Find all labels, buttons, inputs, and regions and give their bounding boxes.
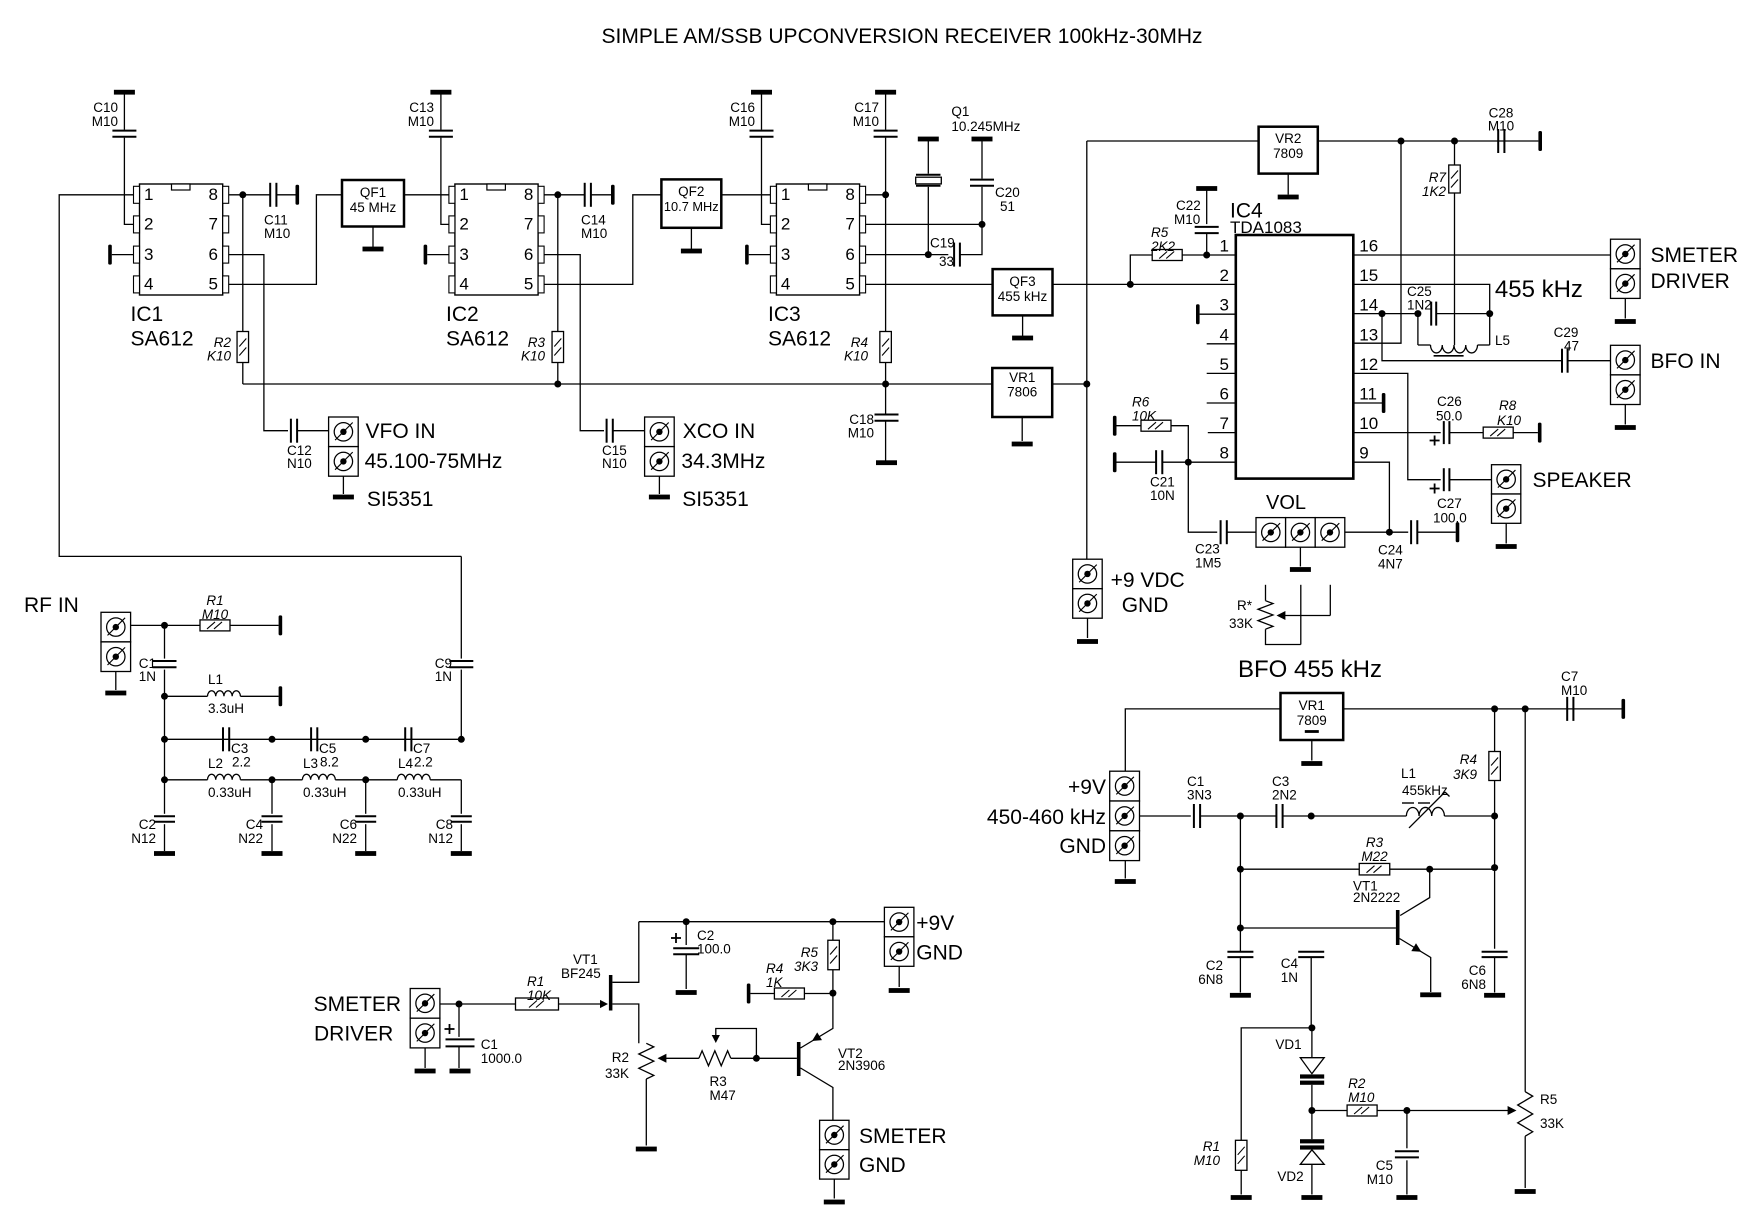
node IC2 pin8 junction [554,191,561,198]
svg-text:3.3uH: 3.3uH [208,701,244,716]
op-amp IC4 TDA1083 box [1236,235,1354,479]
crystal filter QF2 10.7 MHz box [661,179,721,227]
capacitor C28 [1497,129,1499,153]
svg-text:3: 3 [459,245,468,264]
svg-text:2.2: 2.2 [414,755,433,770]
wire R1 to terminator [230,624,279,626]
node ladder A top [161,736,168,743]
inductor L5 [1418,344,1431,346]
svg-text:12: 12 [1359,355,1378,374]
svg-text:VOL: VOL [1266,492,1306,514]
resistor R4 3K9 [1494,709,1496,752]
svg-text:11: 11 [1359,385,1377,404]
svg-text:1: 1 [781,185,790,204]
wire R3 right [1390,868,1495,870]
svg-text:N12: N12 [131,831,156,846]
node C1 out junction [1237,813,1244,820]
inductor L1 455kHz variable [1406,807,1444,816]
crystal Q1 10.245MHz [918,137,939,142]
svg-text:M22: M22 [1361,849,1388,864]
svg-text:R8: R8 [1499,398,1517,413]
VT2 collector [801,1068,833,1120]
potentiometer R3 M47 [699,1051,731,1066]
node R5 bottom junction [1127,281,1134,288]
svg-text:8: 8 [845,185,854,204]
R* wiper vertical [1329,585,1331,616]
svg-text:2N2222: 2N2222 [1353,890,1400,905]
svg-text:K10: K10 [844,349,869,364]
svg-text:VR1: VR1 [1299,698,1325,713]
wire C21 node to C23 [1188,462,1217,532]
svg-text:C6: C6 [1469,963,1486,978]
node ladder B bot [269,776,276,783]
inductor L1 3.3uH [208,691,241,697]
node L1 out junction [1491,813,1498,820]
svg-text:C6: C6 [340,817,357,832]
wire C1 node down [1239,816,1241,952]
transistor VT2 2N3906 bar [797,1042,801,1076]
node VT1 base junction [1237,925,1244,932]
connector VFO IN [329,417,359,447]
node ladder D top [458,736,465,743]
capacitor C4 BFO 1N [1298,951,1324,953]
svg-text:7809: 7809 [1297,713,1327,728]
ground VT1 emitter [1420,992,1441,997]
wire IC3 pin7 to C20 [866,223,982,225]
capacitor C2 100.0 [685,922,687,945]
resistor R7 1K2 [1454,141,1456,165]
wire IC2 pin5 to QF2 [544,195,661,285]
wire IC1 pin8 [229,194,270,196]
capacitor C7 BFO M10 [1566,697,1568,721]
svg-text:SA612: SA612 [768,328,831,351]
node R5 3K3 top junction [829,918,836,925]
svg-text:N22: N22 [238,831,263,846]
resistor R3 M22 [1359,863,1390,875]
svg-text:M10: M10 [1194,1153,1221,1168]
svg-text:0.33uH: 0.33uH [208,785,252,800]
svg-text:455 kHz: 455 kHz [1495,276,1583,303]
svg-text:33K: 33K [1540,1116,1564,1131]
svg-text:IC3: IC3 [768,303,801,326]
wire RF IN to C1 [131,624,200,626]
capacitor C1 1000.0 [458,1004,460,1037]
svg-text:7809: 7809 [1273,146,1303,161]
svg-text:R4: R4 [766,961,783,976]
capacitor C14 [584,183,586,207]
svg-text:N10: N10 [287,456,312,471]
connector SMETER DRIVER [1611,239,1641,269]
VT1 source [612,1004,638,1043]
connector SMETER GND bottom [820,1120,849,1149]
R3 wiper bracket [712,1035,720,1043]
node ladder A bot [161,776,168,783]
connector SPEAKER [1492,465,1521,494]
svg-text:6: 6 [845,245,854,264]
svg-text:450-460 kHz: 450-460 kHz [987,806,1106,829]
capacitor C11 [269,183,271,207]
svg-text:0.33uH: 0.33uH [398,785,442,800]
svg-text:+9V: +9V [1068,776,1106,799]
svg-text:R*: R* [1237,598,1253,613]
node R5 BFO top junction [1522,705,1529,712]
svg-text:K10: K10 [1497,413,1522,428]
svg-text:L2: L2 [208,756,223,771]
svg-text:SIMPLE AM/SSB UPCONVERSION REC: SIMPLE AM/SSB UPCONVERSION RECEIVER 100k… [602,25,1203,48]
capacitor C29 47 [1561,349,1563,373]
svg-text:10N: 10N [1150,488,1175,503]
svg-text:50.0: 50.0 [1436,409,1462,424]
svg-text:+9 VDC: +9 VDC [1111,569,1185,592]
svg-text:4: 4 [1220,325,1229,344]
svg-text:10.7 MHz: 10.7 MHz [664,199,719,214]
R* center line [1300,585,1302,645]
svg-text:455kHz: 455kHz [1402,783,1448,798]
svg-text:8: 8 [524,185,533,204]
transistor VT1 emitter [1400,939,1431,993]
svg-text:0.33uH: 0.33uH [303,785,347,800]
resistor R6 10K [1113,416,1117,436]
svg-text:M47: M47 [710,1088,736,1103]
svg-text:M10: M10 [853,114,879,129]
svg-text:7: 7 [845,215,854,234]
node VT1 collector junction [1426,866,1433,873]
node C5 junction [1403,1107,1410,1114]
node IC3 pin8 junction [882,191,889,198]
svg-text:VR2: VR2 [1275,131,1301,146]
svg-text:3N3: 3N3 [1187,788,1212,803]
ground +9VDC conn [1087,618,1089,638]
svg-text:3K9: 3K9 [1453,767,1478,782]
ground SPEAKER conn [1505,523,1507,543]
terminator IC4 pin3 [1196,304,1200,324]
capacitor C7 2.2 [404,727,406,751]
wire IC2 pin6 to XCO [544,255,604,431]
svg-text:10K: 10K [1132,409,1157,424]
ground SMETER bottom conn [833,1179,835,1198]
svg-text:M10: M10 [264,226,290,241]
svg-text:1: 1 [459,185,468,204]
connector VOL [1256,518,1286,548]
wire L3 to node C [335,779,365,781]
node R3 right junction [1491,864,1498,871]
resistor R4 K10 [880,332,892,363]
terminator L1 [279,686,283,706]
svg-text:C1: C1 [481,1037,498,1052]
node C25 left junction [1414,310,1421,317]
wire C14 to terminator [591,194,611,196]
svg-text:4: 4 [781,275,790,294]
svg-text:R1: R1 [1203,1139,1220,1154]
wire QF1 to IC2 pin1 [404,194,449,196]
svg-text:8: 8 [209,185,218,204]
svg-text:R1: R1 [206,593,223,608]
svg-text:33K: 33K [605,1066,629,1081]
svg-text:C10: C10 [93,100,118,115]
wire R4 node down to C6 [1494,816,1496,949]
inductor L4 0.33uH [397,774,430,780]
terminator R1 [279,615,283,635]
wire L1 to terminator [240,695,278,697]
svg-text:IC1: IC1 [131,303,164,326]
wire L4 to C8 line [430,779,461,781]
svg-text:C13: C13 [409,100,434,115]
wire C29 to BFO IN [1568,360,1611,362]
capacitor C20 [972,137,993,142]
svg-text:C2: C2 [139,817,156,832]
wire VD1 to R2 [1312,1110,1347,1112]
node VT2 base junction [753,1055,760,1062]
wire pin14 to BFO IN [1382,314,1561,361]
diode VD2 zener [1311,1111,1313,1140]
svg-text:47: 47 [1564,339,1579,354]
wire IC4 pin7 stub [1208,432,1236,434]
svg-text:7: 7 [209,215,218,234]
wire ladder row bottom C [366,779,398,781]
wire R5 hook to pin2 net [1130,255,1152,284]
wire R2 to R5 arrow [1377,1110,1513,1112]
VT1 bar [1396,910,1400,945]
capacitor C22 [1196,186,1217,191]
terminator C7 [1622,699,1626,719]
wire +9V vertical rail [1086,141,1088,559]
wire VR2 to C28 [1318,140,1539,142]
wire C27 to SPEAKER [1449,479,1491,481]
inductor L2 0.33uH [208,774,241,780]
ground +9V conn [898,966,900,987]
L1 BFO arrow [1409,792,1445,828]
svg-text:BF245: BF245 [561,966,601,981]
resistor R5 2K2 [1152,250,1182,261]
svg-text:R5: R5 [1151,225,1169,240]
wire C19 to C20 node [960,224,982,254]
node R7 top junction [1451,138,1458,145]
ground VR2 [1287,174,1289,195]
svg-text:10.245MHz: 10.245MHz [951,119,1020,134]
wire IC3 pin6 [866,254,949,256]
wire pin13 to +9V [1353,141,1401,343]
inductor L3 0.33uH [302,774,335,780]
svg-text:6: 6 [1220,385,1229,404]
capacitor C3 BFO 2N2 [1275,804,1277,828]
capacitor C10 [114,90,135,95]
ground VR1 BFO [1311,740,1313,761]
capacitor C27 electrolytic [1443,468,1445,491]
svg-text:DRIVER: DRIVER [1651,270,1730,293]
capacitor C17 [875,90,896,95]
svg-text:SMETER: SMETER [1651,244,1739,267]
svg-text:1N: 1N [1281,970,1298,985]
potentiometer R* 33K [1265,585,1267,601]
capacitor C5 BFO M10 [1406,1111,1408,1149]
svg-text:C19: C19 [930,236,955,251]
capacitor C3 2.2 [222,727,224,751]
connector +9V 450-460kHz GND [1110,771,1140,801]
svg-text:SMETER: SMETER [314,993,402,1016]
svg-text:R5: R5 [801,945,819,960]
capacitor C26 electrolytic [1443,421,1445,444]
voltage regulator VR1 7809 BFO box [1281,693,1344,740]
node VD1 bottom junction [1308,1107,1315,1114]
svg-text:8: 8 [1220,444,1229,463]
wire C25 to right leg [1437,313,1490,315]
svg-text:14: 14 [1359,296,1378,315]
svg-text:L1: L1 [208,672,223,687]
svg-text:2: 2 [781,215,790,234]
svg-text:1: 1 [1220,237,1229,256]
svg-text:C23: C23 [1195,542,1220,557]
svg-text:8.2: 8.2 [320,755,339,770]
capacitor C6 N22 shunt [365,780,367,814]
svg-text:SI5351: SI5351 [367,488,434,511]
node C21 junction [1185,459,1192,466]
wire C23 to VOL [1227,531,1256,533]
svg-text:7806: 7806 [1007,385,1037,400]
node C2 top junction [683,918,690,925]
svg-text:M10: M10 [1488,119,1514,134]
ground QF2 [690,228,692,249]
op-amp IC2 SA612 mixer box [455,184,538,295]
svg-text:C26: C26 [1437,394,1462,409]
svg-text:SA612: SA612 [131,328,194,351]
voltage regulator VR2 7809 box [1259,127,1318,174]
node ladder C top [362,736,369,743]
svg-text:R2: R2 [1348,1076,1366,1091]
node VD1 top junction [1308,1024,1315,1031]
ground VR1 7806 [1021,417,1023,441]
ground SMETER conn left [424,1048,426,1068]
wire SMETER conn to R1 [440,1003,516,1005]
svg-text:M10: M10 [848,426,874,441]
svg-text:L4: L4 [398,756,414,771]
terminator IC2 pin3 [424,245,428,265]
svg-text:C5: C5 [1376,1158,1393,1173]
svg-text:455 kHz: 455 kHz [998,289,1048,304]
svg-text:Q1: Q1 [951,104,969,119]
inductor L5 tank legs [1417,314,1419,345]
svg-text:2.2: 2.2 [232,755,251,770]
capacitor C2 N12 shunt [164,780,166,814]
svg-text:M10: M10 [92,114,118,129]
wire VR1 output to +9V rail [1052,383,1087,385]
svg-text:1: 1 [144,185,153,204]
svg-text:L5: L5 [1495,333,1510,348]
wire QF3 to IC4 pin2 [1053,283,1236,285]
wire ladder row top [165,738,462,740]
svg-text:2K2: 2K2 [1150,239,1176,254]
svg-text:9: 9 [1359,444,1368,463]
potentiometer R5 33K BFO [1524,709,1526,1092]
connector RF IN [101,612,131,642]
wire IC1 pin1 to RF filter [59,195,461,557]
resistor R2 BFO M10 [1347,1105,1377,1116]
svg-text:+9V: +9V [916,912,954,935]
wire C15 to XCO connector [613,430,645,432]
ground VOL [1299,547,1301,566]
node C1 smeter junction [456,1001,463,1008]
L5 core line [1434,355,1464,357]
svg-text:C8: C8 [436,817,453,832]
svg-text:1M5: 1M5 [1195,556,1221,571]
svg-text:IC2: IC2 [446,303,479,326]
svg-text:4: 4 [144,275,153,294]
transistor VT1 2N2222 collector [1400,869,1430,915]
svg-text:4: 4 [459,275,468,294]
wire 6V rail [243,383,993,385]
svg-text:1000.0: 1000.0 [481,1051,522,1066]
transistor VT1 BF245 bar [609,975,613,1011]
svg-text:3K3: 3K3 [794,959,819,974]
wire R3 left [1240,868,1359,870]
capacitor C4 N22 shunt [271,780,273,814]
terminator IC3 pin3 [745,245,749,265]
svg-text:GND: GND [916,942,963,965]
svg-text:C4: C4 [1281,956,1299,971]
ground RF connector [115,672,117,691]
wire IC4 pin5 stub [1207,372,1236,374]
svg-text:5: 5 [1220,355,1229,374]
wire VR1 BFO output rail [1343,708,1621,710]
wire IC4 pin4 stub [1207,343,1236,345]
wire IC2 pin8 [544,194,585,196]
L1 BFO dashes [1402,802,1414,804]
wire C26 to R8 [1449,432,1483,434]
terminator C11 [296,185,300,205]
connector +9 VDC GND [1073,559,1103,589]
node R3 left junction [1237,866,1244,873]
node C3 out junction [1308,813,1315,820]
svg-text:L1: L1 [1401,766,1416,781]
wire L2 to node B [240,779,272,781]
node C20 junction [979,221,986,228]
svg-text:SMETER: SMETER [859,1125,947,1148]
svg-text:L3: L3 [303,756,318,771]
node pin14 junction [1379,310,1386,317]
node IC1 pin8 junction [239,191,246,198]
capacitor C24 [1410,520,1412,544]
svg-text:QF2: QF2 [678,184,704,199]
ground QF3 [1022,315,1024,336]
svg-text:C4: C4 [246,817,264,832]
svg-text:M10: M10 [1561,683,1587,698]
svg-text:M10: M10 [1348,1090,1375,1105]
svg-text:3: 3 [781,245,790,264]
svg-text:C27: C27 [1437,496,1462,511]
svg-text:VT1: VT1 [573,952,598,967]
svg-text:R4: R4 [1460,752,1477,767]
svg-text:K10: K10 [521,349,546,364]
svg-text:N22: N22 [332,831,357,846]
node RF input junction [161,622,168,629]
wire IC3 pin8 to C17 line [866,194,886,196]
wire BFO input to C1 [1140,815,1191,817]
capacitor C2 BFO 6N8 [1227,951,1253,953]
wire to R1 BFO [1241,1028,1312,1141]
svg-text:DRIVER: DRIVER [314,1023,393,1046]
wire C12 to VFO connector [297,430,329,432]
wire C11 to terminator [276,194,295,196]
VT2 emitter [801,993,833,1048]
node C22 junction [1203,252,1210,259]
wire VOL to C24 [1345,531,1408,533]
svg-text:13: 13 [1359,325,1378,344]
capacitor C21 [1113,452,1117,472]
wire IC3 pin5 to QF3 [866,283,993,285]
wire IC1 pin5 to QF1 [229,195,342,285]
resistor R5 3K3 [832,922,834,941]
svg-text:VD1: VD1 [1275,1037,1301,1052]
svg-text:R2: R2 [612,1050,629,1065]
